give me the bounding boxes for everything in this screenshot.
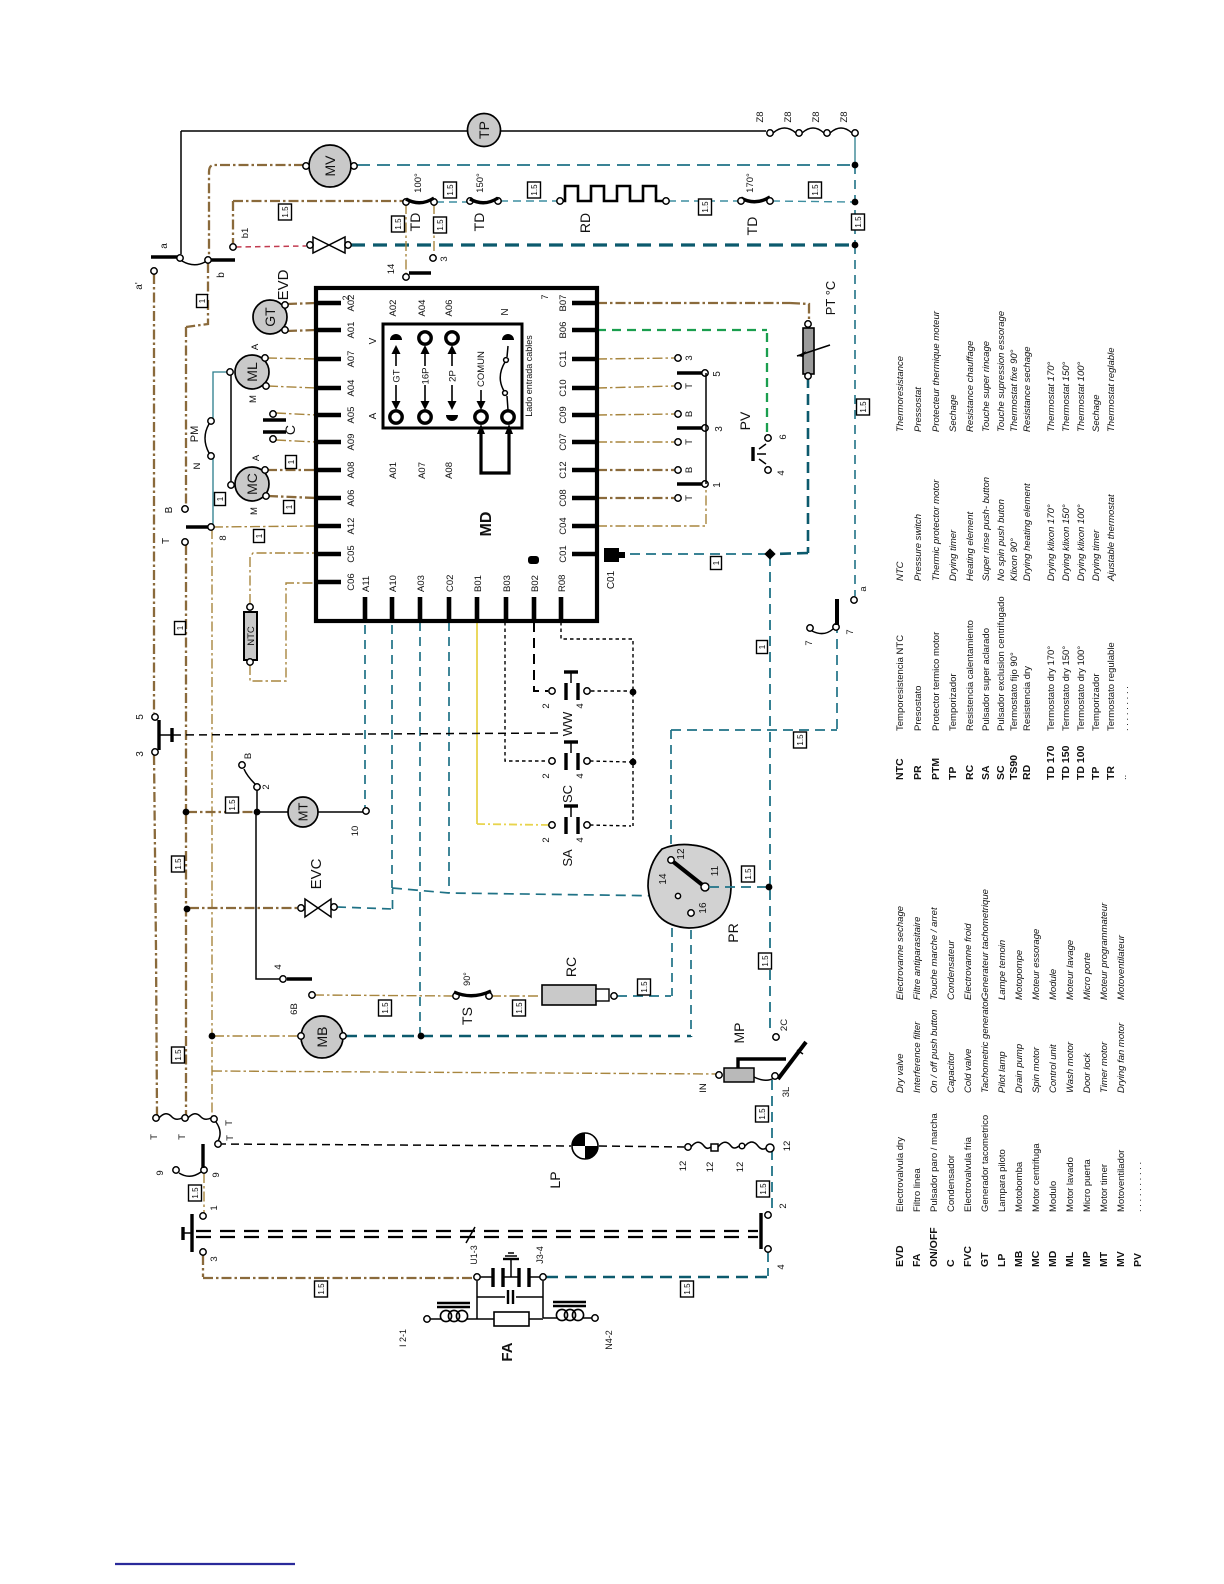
svg-text:V: V (368, 337, 379, 344)
svg-text:1: 1 (198, 298, 207, 303)
svg-text:3L: 3L (781, 1087, 792, 1098)
svg-text:Door lock: Door lock (1082, 1052, 1093, 1093)
svg-text:Drying timer: Drying timer (1091, 529, 1102, 581)
svg-text:Motopompe: Motopompe (1014, 950, 1025, 1000)
svg-text:GT: GT (979, 1252, 991, 1267)
svg-text:Presostato: Presostato (913, 686, 924, 731)
svg-text:1: 1 (216, 496, 225, 501)
svg-text:C08: C08 (558, 489, 569, 506)
svg-text:PR: PR (912, 765, 924, 780)
svg-text:A10: A10 (388, 575, 399, 592)
svg-text:PR: PR (725, 923, 741, 942)
svg-text:C01: C01 (558, 545, 569, 562)
svg-text:1.5: 1.5 (761, 955, 770, 967)
svg-text:A09: A09 (346, 434, 357, 451)
svg-text:Resistencia calentamiento: Resistencia calentamiento (965, 620, 976, 731)
svg-text:Resistencia dry: Resistencia dry (1022, 666, 1033, 731)
svg-text:1.5: 1.5 (640, 981, 649, 993)
svg-text:FA: FA (911, 1253, 923, 1267)
svg-text:3: 3 (439, 256, 450, 261)
svg-text:RD: RD (577, 213, 593, 233)
svg-text:1.5: 1.5 (317, 1283, 326, 1295)
svg-text:MB: MB (314, 1027, 330, 1048)
svg-text:T: T (225, 1135, 236, 1141)
svg-text:A: A (368, 412, 379, 419)
svg-text:4: 4 (776, 1264, 787, 1269)
svg-text:Module: Module (1048, 969, 1059, 1000)
svg-text:C10: C10 (558, 379, 569, 396)
svg-text:B03: B03 (502, 575, 513, 592)
svg-text:Electrovalvula dry: Electrovalvula dry (895, 1137, 906, 1212)
svg-text:Electrovalvula fria: Electrovalvula fria (963, 1136, 974, 1212)
svg-text:Thermostat 170°: Thermostat 170° (1046, 361, 1057, 432)
svg-text:M: M (249, 507, 260, 515)
svg-text:Micro puerta: Micro puerta (1082, 1158, 1093, 1212)
svg-text:Moteur essorage: Moteur essorage (1031, 929, 1042, 1000)
svg-text:B02: B02 (530, 575, 541, 592)
svg-text:a: a (159, 243, 170, 249)
svg-text:1.5: 1.5 (174, 858, 183, 870)
svg-text:Thermostat reglable: Thermostat reglable (1106, 348, 1117, 432)
svg-text:A01: A01 (346, 322, 357, 339)
svg-text:R08: R08 (557, 575, 568, 592)
svg-text:TD: TD (744, 217, 760, 236)
svg-text:1.5: 1.5 (796, 734, 805, 746)
svg-text:Sechage: Sechage (1091, 394, 1102, 432)
svg-text:12: 12 (705, 1162, 716, 1173)
svg-text:Termostato dry 100°: Termostato dry 100° (1076, 646, 1087, 731)
svg-text:RD: RD (1021, 764, 1033, 780)
svg-text:Drying timer: Drying timer (948, 529, 959, 581)
svg-text:7: 7 (540, 294, 550, 299)
svg-text:Drying klixon 170°: Drying klixon 170° (1046, 504, 1057, 581)
svg-text:2: 2 (541, 837, 552, 842)
svg-text:MC: MC (1030, 1250, 1042, 1267)
svg-text:14: 14 (658, 873, 669, 885)
svg-text:1.5: 1.5 (381, 1002, 390, 1014)
svg-text:Micro porte: Micro porte (1082, 952, 1093, 1000)
svg-text:EVC: EVC (308, 858, 325, 889)
svg-text:1.5: 1.5 (854, 216, 863, 228)
svg-text:1: 1 (209, 1205, 220, 1210)
svg-text:SA: SA (560, 849, 575, 867)
svg-text:3: 3 (209, 1256, 220, 1261)
svg-text:T: T (684, 383, 695, 389)
svg-text:1.5: 1.5 (394, 218, 403, 230)
svg-text:Drying heating element: Drying heating element (1022, 483, 1033, 581)
svg-text:Filtre antiparasitaire: Filtre antiparasitaire (912, 917, 923, 1000)
svg-text:Drying fan motor: Drying fan motor (1116, 1022, 1127, 1093)
svg-text:MV: MV (1115, 1251, 1127, 1267)
svg-text:Termostato dry 150°: Termostato dry 150° (1061, 646, 1072, 731)
svg-text:4: 4 (273, 964, 284, 969)
svg-text:Motobomba: Motobomba (1014, 1161, 1025, 1212)
svg-text:5: 5 (135, 714, 146, 720)
svg-text:TD 150: TD 150 (1060, 745, 1072, 780)
svg-text:150°: 150° (475, 173, 486, 193)
svg-text:Lado entrada cables: Lado entrada cables (524, 335, 534, 417)
svg-text:Thermostat fixe 90°: Thermostat fixe 90° (1009, 349, 1020, 432)
svg-text:5: 5 (712, 371, 723, 377)
svg-text:A08: A08 (346, 462, 357, 479)
svg-text:T: T (684, 439, 695, 445)
svg-text:PM: PM (189, 426, 201, 443)
svg-text:90°: 90° (462, 972, 472, 986)
svg-text:6: 6 (778, 434, 789, 439)
svg-text:Lampara piloto: Lampara piloto (997, 1149, 1008, 1212)
svg-text:RC: RC (964, 764, 976, 780)
svg-text:1.5: 1.5 (859, 401, 868, 413)
svg-text:C07: C07 (558, 433, 569, 450)
svg-text:TD: TD (407, 213, 423, 232)
svg-text:1.5: 1.5 (744, 868, 753, 880)
svg-text:C01: C01 (606, 570, 617, 589)
svg-text:12: 12 (782, 1141, 793, 1152)
svg-text:Termostato regulable: Termostato regulable (1106, 642, 1117, 731)
svg-text:T: T (177, 1134, 188, 1140)
svg-text:A12: A12 (346, 518, 357, 535)
svg-text:1.5: 1.5 (281, 206, 290, 218)
svg-text:9: 9 (211, 1172, 222, 1177)
svg-text:Pulsador exclusion centrifugad: Pulsador exclusion centrifugado (996, 596, 1007, 731)
svg-text:1: 1 (712, 560, 721, 565)
svg-text:B: B (684, 411, 695, 417)
svg-text:Control unit: Control unit (1048, 1044, 1059, 1093)
svg-text:1.5: 1.5 (174, 1049, 183, 1061)
svg-text:A02: A02 (388, 300, 399, 317)
svg-text:C12: C12 (558, 461, 569, 478)
svg-text:Thermostat 100°: Thermostat 100° (1076, 361, 1087, 432)
svg-text:T: T (161, 538, 172, 544)
svg-text:Temporesistencia NTC: Temporesistencia NTC (895, 635, 906, 731)
svg-text:Condensador: Condensador (946, 1155, 957, 1212)
svg-text:A03: A03 (416, 575, 427, 592)
svg-text:MP: MP (1081, 1251, 1093, 1267)
svg-text:TD: TD (471, 213, 487, 232)
svg-text:TR: TR (1105, 766, 1117, 780)
svg-text:Ajustable thermostat: Ajustable thermostat (1106, 494, 1117, 582)
svg-text:Capacitor: Capacitor (946, 1052, 957, 1093)
svg-text:Temporizador: Temporizador (1091, 673, 1102, 731)
svg-text:A05: A05 (346, 407, 357, 424)
svg-text:Temporizador: Temporizador (948, 673, 959, 731)
svg-text:A04: A04 (417, 300, 428, 317)
svg-text:1: 1 (758, 644, 767, 649)
svg-text:Spin motor: Spin motor (1031, 1046, 1042, 1093)
svg-text:1: 1 (255, 533, 264, 538)
svg-text:SA: SA (980, 765, 992, 780)
svg-text:4: 4 (575, 703, 586, 708)
svg-text:100°: 100° (413, 173, 424, 193)
svg-text:C02: C02 (445, 575, 456, 592)
svg-text:I 2-1: I 2-1 (398, 1329, 408, 1347)
svg-text:Resistance chauffage: Resistance chauffage (965, 341, 976, 432)
svg-text:1: 1 (285, 504, 294, 509)
svg-text:Touche marche / arret: Touche marche / arret (929, 907, 940, 1000)
svg-text:12: 12 (676, 848, 687, 860)
svg-text:A07: A07 (346, 351, 357, 368)
svg-text:Klixon 90°: Klixon 90° (1009, 538, 1020, 581)
svg-text:Moteur programmateur: Moteur programmateur (1099, 902, 1110, 1000)
svg-text:Moteur lavage: Moteur lavage (1065, 940, 1076, 1000)
svg-text:COMUN: COMUN (476, 351, 487, 387)
svg-text:. . . . . . . . . .: . . . . . . . . . . (1133, 1162, 1144, 1212)
svg-text:Protector termico motor: Protector termico motor (931, 632, 942, 731)
svg-text:EVD: EVD (275, 269, 292, 300)
svg-text:Z8: Z8 (783, 111, 794, 122)
svg-text:1.5: 1.5 (701, 201, 710, 213)
svg-text:16: 16 (698, 902, 709, 914)
svg-text:B07: B07 (558, 295, 569, 312)
svg-text:A11: A11 (361, 576, 372, 592)
svg-text:B06: B06 (558, 322, 569, 339)
svg-text:4: 4 (776, 470, 787, 475)
svg-text:T: T (149, 1134, 160, 1140)
svg-text:2C: 2C (779, 1019, 790, 1031)
svg-text:Protecteur thermique moteur: Protecteur thermique moteur (931, 310, 942, 432)
svg-text:Z8: Z8 (839, 111, 850, 122)
svg-text:PV: PV (737, 411, 753, 430)
svg-text:NTC: NTC (246, 626, 257, 646)
svg-text:Pulsador super aclarado: Pulsador super aclarado (981, 628, 992, 731)
svg-text:LP: LP (547, 1171, 563, 1188)
svg-text:EVD: EVD (894, 1245, 906, 1267)
svg-text:N: N (500, 308, 511, 315)
svg-text:M: M (248, 395, 259, 403)
svg-text:Pressure switch: Pressure switch (913, 514, 924, 581)
svg-text:Motor timer: Motor timer (1099, 1164, 1110, 1212)
svg-text:LP: LP (996, 1254, 1008, 1267)
svg-text:MP: MP (731, 1023, 747, 1044)
svg-text:6B: 6B (289, 1003, 300, 1015)
svg-text:Touche supression essorage: Touche supression essorage (996, 311, 1007, 432)
svg-text:2: 2 (261, 784, 272, 789)
svg-text:B: B (684, 467, 695, 473)
svg-text:N4-2: N4-2 (604, 1330, 614, 1350)
svg-text:B: B (164, 506, 175, 513)
svg-text:Condensateur: Condensateur (946, 939, 957, 1000)
svg-text:ON/OFF: ON/OFF (928, 1227, 940, 1267)
svg-text:TS: TS (459, 1007, 475, 1025)
svg-text:1.5: 1.5 (683, 1283, 692, 1295)
svg-text:N: N (192, 462, 203, 469)
svg-text:B01: B01 (473, 575, 484, 592)
svg-text:Touche super rincage: Touche super rincage (981, 341, 992, 432)
svg-text:ML: ML (244, 362, 260, 382)
svg-text:MB: MB (1013, 1250, 1025, 1267)
svg-text:1.5: 1.5 (530, 184, 539, 196)
svg-text:10: 10 (350, 826, 361, 837)
svg-text:Thermic protector motor: Thermic protector motor (931, 479, 942, 581)
svg-text:..: .. (1118, 775, 1129, 780)
svg-text:Motor lavado: Motor lavado (1065, 1157, 1076, 1212)
svg-text:Pulsador paro / marcha: Pulsador paro / marcha (929, 1113, 940, 1212)
svg-text:C11: C11 (558, 351, 569, 368)
svg-text:9: 9 (155, 1170, 166, 1175)
svg-text:WW: WW (560, 711, 575, 736)
svg-text:B: B (243, 753, 254, 759)
svg-text:No spin push buton: No spin push buton (996, 499, 1007, 581)
svg-text:2: 2 (778, 1203, 789, 1208)
svg-text:Timer motor: Timer motor (1099, 1041, 1110, 1093)
svg-text:GT: GT (392, 369, 403, 382)
svg-text:TD 170: TD 170 (1045, 745, 1057, 780)
svg-text:A06: A06 (346, 490, 357, 507)
svg-text:Generateur tachometrique: Generateur tachometrique (980, 889, 991, 1000)
svg-text:C09: C09 (558, 406, 569, 423)
svg-text:PT °C: PT °C (823, 281, 838, 316)
svg-text:a: a (858, 586, 869, 592)
svg-text:MT: MT (1098, 1251, 1110, 1267)
svg-text:11: 11 (710, 865, 721, 876)
svg-text:8: 8 (218, 535, 229, 540)
svg-text:1.5: 1.5 (228, 799, 237, 811)
svg-text:FVC: FVC (962, 1246, 974, 1267)
svg-text:Electrovanne sechage: Electrovanne sechage (895, 906, 906, 1000)
svg-text:Drain pump: Drain pump (1014, 1044, 1025, 1093)
svg-text:Generador tacometrico: Generador tacometrico (980, 1115, 991, 1212)
svg-text:Termostato dry 170°: Termostato dry 170° (1046, 646, 1057, 731)
svg-text:14: 14 (386, 264, 397, 275)
svg-text:4: 4 (575, 837, 586, 842)
svg-text:Pressostat: Pressostat (913, 387, 924, 432)
svg-text:3: 3 (714, 426, 725, 432)
svg-text:2P: 2P (448, 370, 459, 382)
svg-text:1.5: 1.5 (758, 1108, 767, 1120)
svg-text:Z8: Z8 (755, 111, 766, 122)
svg-text:2: 2 (541, 773, 552, 778)
svg-text:MD: MD (1047, 1250, 1059, 1267)
svg-text:12: 12 (735, 1162, 746, 1173)
svg-text:A06: A06 (444, 300, 455, 317)
svg-text:PV: PV (1132, 1253, 1144, 1267)
svg-text:Motoventilateur: Motoventilateur (1116, 934, 1127, 1000)
svg-text:NTC: NTC (895, 561, 906, 581)
svg-text:Tachometric generator: Tachometric generator (980, 997, 991, 1093)
svg-text:Dry valve: Dry valve (895, 1053, 906, 1093)
svg-text:T: T (684, 495, 695, 501)
svg-text:MT: MT (296, 803, 311, 822)
svg-text:1: 1 (712, 482, 723, 488)
svg-text:3: 3 (684, 355, 695, 360)
svg-text:TP: TP (1090, 767, 1102, 780)
svg-text:SC: SC (995, 765, 1007, 780)
svg-text:Pilot lamp: Pilot lamp (997, 1051, 1008, 1093)
svg-text:A: A (251, 454, 262, 461)
svg-text:7: 7 (845, 629, 856, 634)
svg-text:MC: MC (244, 473, 260, 495)
svg-text:TD 100: TD 100 (1075, 745, 1087, 780)
svg-text:A08: A08 (444, 462, 455, 479)
svg-text:Filtro linea: Filtro linea (912, 1167, 923, 1212)
svg-text:GT: GT (262, 307, 278, 327)
svg-text:TP: TP (947, 767, 959, 780)
svg-text:1.5: 1.5 (811, 184, 820, 196)
svg-text:Super rinse push- button: Super rinse push- button (981, 477, 992, 581)
svg-text:3: 3 (135, 751, 146, 757)
svg-text:Cold valve: Cold valve (963, 1049, 974, 1093)
svg-text:1.5: 1.5 (436, 219, 445, 231)
svg-text:ML: ML (1064, 1251, 1076, 1267)
svg-text:Modulo: Modulo (1048, 1181, 1059, 1212)
svg-text:b: b (216, 272, 227, 278)
svg-text:TS90: TS90 (1008, 755, 1020, 780)
svg-text:Motor centrifuga: Motor centrifuga (1031, 1143, 1042, 1212)
svg-text:1: 1 (176, 625, 185, 630)
svg-text:Thermoresistance: Thermoresistance (895, 356, 906, 432)
svg-text:C06: C06 (346, 573, 357, 590)
svg-text:4: 4 (575, 773, 586, 778)
svg-text:Heating element: Heating element (965, 511, 976, 581)
svg-text:Sechage: Sechage (948, 394, 959, 432)
svg-text:Termostato fijo 90°: Termostato fijo 90° (1009, 652, 1020, 731)
svg-text:U1-3: U1-3 (469, 1245, 479, 1265)
svg-text:A04: A04 (346, 380, 357, 397)
svg-text:A01: A01 (388, 462, 399, 479)
svg-text:2: 2 (541, 703, 552, 708)
svg-text:1.5: 1.5 (759, 1183, 768, 1195)
svg-text:C: C (282, 425, 298, 435)
svg-text:T: T (224, 1120, 235, 1126)
svg-text:On / off push button: On / off push button (929, 1010, 940, 1093)
svg-text:NTC: NTC (894, 758, 906, 780)
svg-text:Electrovanne froid: Electrovanne froid (963, 923, 974, 1000)
svg-text:MV: MV (322, 155, 338, 177)
svg-text:1.5: 1.5 (191, 1187, 200, 1199)
svg-text:Drying klixon 100°: Drying klixon 100° (1076, 504, 1087, 581)
svg-text:C04: C04 (558, 517, 569, 534)
svg-text:1.5: 1.5 (446, 184, 455, 196)
svg-text:A07: A07 (417, 462, 428, 479)
svg-text:PTM: PTM (930, 758, 942, 780)
svg-text:Z8: Z8 (811, 111, 822, 122)
svg-text:Drying klixon 150°: Drying klixon 150° (1061, 504, 1072, 581)
svg-text:RC: RC (563, 957, 579, 977)
svg-text:J3-4: J3-4 (535, 1246, 545, 1264)
svg-text:7: 7 (804, 640, 815, 645)
svg-text:. . . . . . . . .: . . . . . . . . . (1120, 686, 1131, 731)
svg-text:FA: FA (499, 1342, 516, 1361)
svg-text:MD: MD (478, 512, 495, 537)
svg-text:Interference filter: Interference filter (912, 1021, 923, 1093)
svg-text:1: 1 (287, 459, 296, 464)
svg-text:a': a' (134, 282, 145, 290)
svg-text:12: 12 (678, 1161, 689, 1172)
svg-text:C: C (945, 1259, 957, 1267)
svg-text:IN: IN (698, 1083, 709, 1093)
svg-text:1.5: 1.5 (515, 1002, 524, 1014)
svg-text:16P: 16P (421, 368, 432, 385)
svg-text:Resistance sechage: Resistance sechage (1022, 346, 1033, 432)
svg-text:A: A (250, 343, 261, 350)
svg-text:TP: TP (476, 121, 492, 139)
svg-text:170°: 170° (745, 173, 756, 193)
svg-text:b1: b1 (240, 228, 251, 239)
svg-text:SC: SC (560, 785, 575, 803)
svg-text:2: 2 (341, 295, 351, 300)
svg-text:Thermostat 150°: Thermostat 150° (1061, 361, 1072, 432)
svg-text:C05: C05 (346, 545, 357, 562)
svg-text:Wash motor: Wash motor (1065, 1041, 1076, 1093)
svg-text:Motoventilador: Motoventilador (1116, 1150, 1127, 1212)
svg-text:Lampe temoin: Lampe temoin (997, 940, 1008, 1000)
